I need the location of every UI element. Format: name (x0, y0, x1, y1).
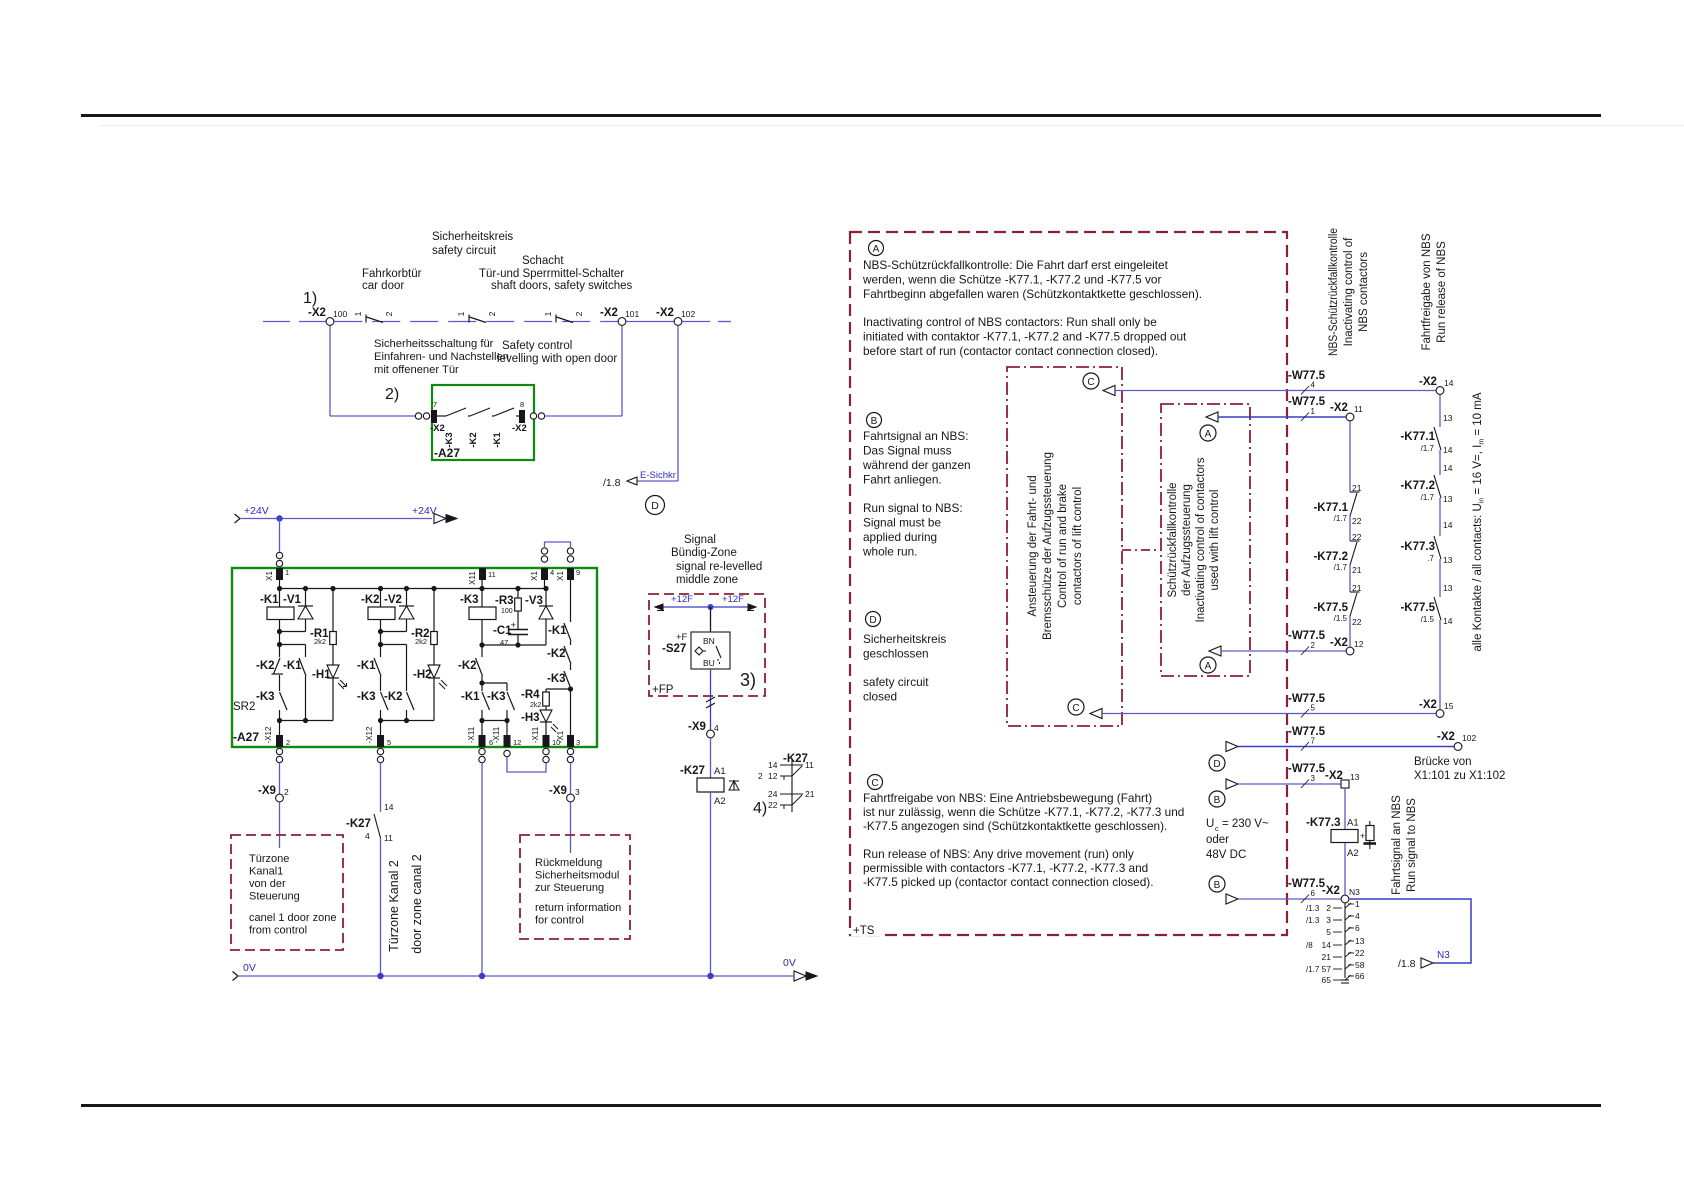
svg-text:permissible with contactors -K: permissible with contactors -K77.1, -K77… (863, 861, 1148, 875)
svg-text:from control: from control (249, 925, 307, 937)
svg-text:24: 24 (768, 789, 778, 799)
wire -W77.5 1 to X2:11 (1206, 412, 1218, 422)
svg-text:return information: return information (535, 902, 621, 914)
relay coil -K27 (710, 738, 712, 778)
svg-text:14: 14 (1443, 616, 1453, 626)
svg-text:-K2: -K2 (256, 660, 275, 672)
internal bus line (280, 588, 547, 590)
svg-text:-K2: -K2 (547, 648, 566, 660)
svg-text:-K77.5 picked up (contactor co: -K77.5 picked up (contactor contact conn… (863, 875, 1154, 889)
terminal circles left of A27 (415, 413, 421, 419)
svg-text:48V DC: 48V DC (1206, 849, 1246, 861)
svg-text:14: 14 (384, 802, 394, 812)
svg-text:4: 4 (714, 723, 719, 733)
wire X2:13 down to K77.3 coil (1344, 788, 1346, 829)
0V rail (233, 972, 239, 981)
svg-text:-K3: -K3 (460, 594, 479, 606)
left K77 chain from X2:11 to X2:12 (1349, 421, 1351, 492)
svg-text:-K2: -K2 (384, 691, 403, 703)
svg-text:/1.7: /1.7 (1334, 563, 1348, 572)
svg-text:-W77.5: -W77.5 (1288, 396, 1326, 408)
frame: top rule (81, 114, 1601, 117)
svg-text:applied during: applied during (863, 530, 937, 544)
junction dot on +24V (276, 515, 282, 521)
svg-text:Run signal to NBS: Run signal to NBS (1406, 798, 1418, 892)
wire with end dash (682, 321, 710, 323)
node line branch3 (482, 644, 546, 646)
pad -X2:7 (431, 410, 437, 423)
module box -A27 (green) (432, 385, 534, 460)
svg-text:X1: X1 (265, 571, 274, 581)
svg-text:13: 13 (1350, 772, 1360, 782)
pad X1:4 top (541, 568, 548, 580)
svg-text:/1.3: /1.3 (1306, 916, 1320, 925)
svg-text:-K77.3: -K77.3 (1400, 541, 1435, 553)
svg-text:13: 13 (1443, 494, 1453, 504)
svg-text:A1: A1 (1347, 818, 1359, 829)
svg-text:C: C (1087, 377, 1094, 388)
svg-text:12: 12 (1354, 639, 1364, 649)
bottom joints branch3 (482, 720, 507, 722)
svg-text:Fahrtfreigabe von NBS: Eine An: Fahrtfreigabe von NBS: Eine Antriebsbewe… (863, 791, 1152, 805)
svg-text:middle zone: middle zone (676, 574, 738, 586)
svg-text:D: D (869, 615, 876, 626)
svg-text:5: 5 (1326, 927, 1331, 937)
right K77 chain from X2:14 to X2:15 (1439, 395, 1441, 427)
svg-text:3: 3 (575, 787, 580, 797)
svg-text:X11: X11 (468, 571, 477, 585)
pad X11:6 (479, 735, 486, 747)
svg-text:-K3: -K3 (256, 691, 275, 703)
node B circle + text block (867, 413, 882, 428)
svg-text:-K77.3: -K77.3 (1306, 817, 1341, 829)
svg-text:ist nur zulässig, wenn die Sch: ist nur zulässig, wenn die Schütze -K77.… (863, 805, 1184, 819)
svg-text:11: 11 (488, 570, 496, 579)
wire -W77.5 7 to X2:102 (1226, 742, 1238, 752)
svg-text:65: 65 (1322, 975, 1332, 985)
svg-text:21: 21 (1322, 952, 1332, 962)
svg-text:Einfahren- und Nachstellen: Einfahren- und Nachstellen (374, 351, 509, 363)
svg-text:Tür-und Sperrmittel-Schalter: Tür-und Sperrmittel-Schalter (479, 268, 624, 280)
svg-text:14: 14 (1443, 520, 1453, 530)
svg-text:11: 11 (1354, 404, 1363, 414)
sensor box +FP (dashed) (649, 594, 765, 696)
svg-text:Signal must be: Signal must be (863, 516, 941, 530)
svg-text:-K1: -K1 (357, 660, 376, 672)
svg-text:-X2: -X2 (656, 307, 674, 319)
wire -W77.5 5 to X2:15 (1090, 709, 1102, 719)
svg-text:-K1: -K1 (283, 660, 302, 672)
svg-text:/1.7: /1.7 (1421, 444, 1435, 453)
svg-text:1: 1 (456, 311, 466, 316)
svg-text:15: 15 (1444, 701, 1454, 711)
contact -K2 in A27 (468, 415, 470, 417)
svg-text:11: 11 (384, 833, 393, 843)
svg-text:door zone canal 2: door zone canal 2 (410, 854, 424, 953)
svg-text:-V2: -V2 (384, 594, 402, 606)
svg-text:-X1: -X1 (556, 730, 565, 743)
svg-text:-K77.5: -K77.5 (1400, 602, 1435, 614)
+12F rail in FP box (655, 606, 756, 608)
pad X1:3 (567, 735, 574, 747)
svg-text:B: B (1214, 795, 1221, 806)
svg-text:-X2: -X2 (512, 423, 527, 434)
contact -K1 in A27 (492, 415, 494, 417)
annotation box Tuerzone Kanal1 (dashed) (231, 835, 343, 950)
svg-text:-X11: -X11 (531, 726, 540, 743)
svg-text:B: B (1214, 880, 1221, 891)
svg-text:+24V: +24V (412, 505, 437, 517)
svg-text:5: 5 (1311, 704, 1316, 713)
svg-text:C: C (1072, 703, 1079, 714)
pad -X2:8 (519, 410, 525, 423)
svg-text:Das Signal muss: Das Signal muss (863, 444, 952, 458)
svg-text:-K1: -K1 (260, 594, 279, 606)
svg-text:2: 2 (284, 787, 289, 797)
switch S3 (safety switch) pins 1-2 (555, 315, 557, 323)
svg-text:SR2: SR2 (233, 701, 255, 713)
svg-text:14: 14 (1322, 940, 1332, 950)
svg-text:8: 8 (520, 400, 524, 409)
svg-text:12: 12 (768, 771, 778, 781)
svg-text:4: 4 (550, 568, 554, 577)
svg-text:Control of run and brake: Control of run and brake (1057, 484, 1069, 608)
svg-text:2: 2 (1326, 903, 1331, 913)
svg-text:102: 102 (1462, 733, 1476, 743)
svg-text:-K77.2: -K77.2 (1313, 551, 1348, 563)
svg-text:-X2: -X2 (1330, 402, 1348, 414)
svg-text:21: 21 (1352, 565, 1362, 575)
svg-text:-R4: -R4 (521, 689, 540, 701)
svg-text:1: 1 (1355, 899, 1360, 909)
bottom joint branch1 (280, 720, 334, 722)
svg-text:-K77.1: -K77.1 (1313, 502, 1348, 514)
svg-text:2: 2 (758, 771, 763, 781)
pad X11:10 (543, 735, 550, 747)
svg-text:14: 14 (768, 760, 778, 770)
wire +24V down to X1:1 (279, 519, 281, 553)
svg-text:3: 3 (576, 738, 580, 747)
svg-text:/1.8: /1.8 (1398, 958, 1416, 970)
wire -W77.5 4 to X2:14 (1103, 386, 1115, 396)
svg-text:von der: von der (249, 878, 286, 890)
svg-text:-X2: -X2 (308, 307, 326, 319)
svg-text:13: 13 (1355, 936, 1365, 946)
svg-text:9: 9 (576, 568, 580, 577)
node B circle row3 (1209, 791, 1225, 807)
svg-text:NBS-Schützrückfallkontrolle: NBS-Schützrückfallkontrolle (1328, 228, 1340, 356)
switch S2 (shaft door) pins 1-2 (468, 315, 470, 323)
svg-text:14: 14 (1444, 378, 1454, 388)
svg-text:-K1: -K1 (492, 432, 503, 448)
svg-text:zur Steuerung: zur Steuerung (535, 882, 604, 894)
annotation box +TS (dashed dark red) (850, 232, 1287, 935)
junction dots on 0V (377, 973, 383, 979)
svg-text:2): 2) (385, 386, 399, 403)
svg-text:-K27: -K27 (680, 765, 705, 777)
svg-text:-W77.5: -W77.5 (1288, 370, 1326, 382)
svg-text:U: U (1206, 818, 1214, 830)
svg-text:2: 2 (286, 738, 290, 747)
svg-text:-K77.2: -K77.2 (1400, 480, 1435, 492)
svg-text:/1.8: /1.8 (603, 477, 621, 489)
svg-text:-W77.5: -W77.5 (1288, 726, 1326, 738)
svg-text:100: 100 (501, 608, 513, 615)
svg-text:for control: for control (535, 915, 584, 927)
svg-text:Ansteuerung der Fahrt- und: Ansteuerung der Fahrt- und (1027, 475, 1039, 616)
svg-text:6: 6 (1311, 889, 1316, 898)
pad X11:11 top (479, 568, 486, 580)
svg-text:0V: 0V (243, 962, 256, 974)
svg-text:N3: N3 (1349, 887, 1360, 897)
svg-text:before start of run (contactor: before start of run (contactor contact c… (863, 344, 1158, 358)
svg-text:-A27: -A27 (434, 446, 460, 460)
svg-text:werden, wenn die Schütze -K77.: werden, wenn die Schütze -K77.1, -K77.2 … (862, 273, 1161, 287)
svg-text:2: 2 (487, 311, 497, 316)
svg-text:C: C (871, 778, 878, 789)
R4/H3 branch (546, 688, 571, 690)
svg-text:Türzone Kanal 2: Türzone Kanal 2 (387, 860, 401, 952)
svg-text:13: 13 (1443, 413, 1453, 423)
svg-text:-S27: -S27 (662, 643, 686, 655)
node D circle + text block (866, 612, 881, 627)
frame: bottom rule (81, 1104, 1601, 1107)
terminal circles right of A27 (530, 413, 536, 419)
svg-text:A2: A2 (714, 796, 726, 807)
svg-text:47: 47 (500, 638, 508, 647)
svg-text:+24V: +24V (244, 505, 269, 517)
svg-text:contactors of lift control: contactors of lift control (1072, 487, 1084, 605)
suppressor diode at K27 (733, 780, 735, 790)
svg-text:Sicherheitskreis: Sicherheitskreis (863, 632, 946, 646)
svg-text:mit offenener Tür: mit offenener Tür (374, 364, 459, 376)
svg-text:6: 6 (1355, 923, 1360, 933)
svg-text:-X11: -X11 (492, 726, 501, 743)
svg-text:Kanal1: Kanal1 (249, 866, 283, 878)
switch S1 (car door) pins 1-2 (365, 315, 367, 323)
svg-text:3): 3) (740, 670, 756, 690)
svg-text:14: 14 (1443, 463, 1453, 473)
svg-text:NBS-Schützrückfallkontrolle: D: NBS-Schützrückfallkontrolle: Die Fahrt d… (863, 258, 1169, 272)
pad X1:1 top (276, 568, 283, 580)
module box SR2 (green) (232, 568, 597, 747)
wire X2:102 down to E-Sichkr (677, 326, 679, 481)
svg-text:-X2: -X2 (1330, 637, 1348, 649)
svg-text:-K77.1: -K77.1 (1400, 431, 1435, 443)
svg-text:1: 1 (543, 311, 553, 316)
svg-text:Sicherheitsmodul: Sicherheitsmodul (535, 870, 619, 882)
wire X11:6 down to 0V (481, 763, 483, 976)
node C circle row5 (1068, 699, 1084, 715)
svg-text:2: 2 (1311, 641, 1316, 650)
wire: dashed blue safety line (334, 321, 618, 323)
svg-text:-V1: -V1 (283, 594, 302, 606)
svg-text:100: 100 (333, 309, 347, 319)
svg-text:14: 14 (1443, 445, 1453, 455)
svg-text:3: 3 (1311, 774, 1316, 783)
svg-text:X1:101 zu X1:102: X1:101 zu X1:102 (1414, 770, 1505, 782)
svg-text:N3: N3 (1437, 950, 1450, 961)
svg-text:-H3: -H3 (521, 712, 540, 724)
svg-text:-X2: -X2 (1419, 699, 1437, 711)
svg-text:-X2: -X2 (1437, 731, 1455, 743)
svg-text:2k2: 2k2 (415, 637, 427, 646)
pad X1:9 top (567, 568, 574, 580)
svg-text:X1: X1 (530, 571, 539, 581)
svg-text:Fahrtfreigabe von NBS: Fahrtfreigabe von NBS (1421, 233, 1433, 350)
function box Ansteuerung (dash-dot) (1007, 367, 1122, 726)
svg-text:closed: closed (863, 690, 897, 704)
contact -K3 in A27 (437, 415, 446, 417)
svg-text:102: 102 (681, 309, 695, 319)
pad X12:5 (377, 735, 384, 747)
svg-text:Run release of NBS: Run release of NBS (1436, 241, 1448, 343)
svg-text:Fahrtbeginn abgefallen waren (: Fahrtbeginn abgefallen waren (Schützkont… (863, 287, 1202, 301)
wire (626, 321, 674, 323)
svg-text:-H2: -H2 (413, 669, 432, 681)
svg-text:12: 12 (513, 738, 521, 747)
svg-text:2: 2 (384, 311, 394, 316)
svg-text:Türzone: Türzone (249, 853, 289, 865)
svg-text:Inactivating control of NBS co: Inactivating control of NBS contactors: … (863, 315, 1157, 329)
svg-text:/1.5: /1.5 (1334, 614, 1348, 623)
node C circle + text block (868, 775, 883, 790)
svg-text:-K27: -K27 (346, 818, 371, 830)
pad X12:2 (276, 735, 283, 747)
circles above X1:4 X1:9 and blue bridge (541, 556, 547, 562)
svg-text:BU: BU (703, 658, 715, 668)
svg-text:-K77.5: -K77.5 (1313, 602, 1348, 614)
svg-text:whole run.: whole run. (862, 545, 917, 559)
svg-text:levelling with open door: levelling with open door (497, 353, 617, 365)
svg-text:-W77.5: -W77.5 (1288, 693, 1326, 705)
svg-text:/1.5: /1.5 (1421, 615, 1435, 624)
svg-text:Schacht: Schacht (522, 255, 564, 267)
sensor -S27 (710, 607, 712, 632)
wire -W77.5 3 to X2:13 (1226, 779, 1238, 789)
contact -K77.5 13/14 (1434, 597, 1441, 620)
svg-text:5: 5 (387, 738, 391, 747)
svg-text:/1.3: /1.3 (1306, 904, 1320, 913)
svg-text:-X2: -X2 (1325, 770, 1343, 782)
svg-text:3: 3 (1326, 915, 1331, 925)
wire X1:3 down to X9:3 (570, 763, 572, 794)
node C circle row4 (1083, 373, 1099, 389)
svg-text:-H1: -H1 (312, 669, 331, 681)
svg-text:2k2: 2k2 (314, 637, 326, 646)
svg-text:safety circuit: safety circuit (432, 245, 497, 257)
svg-text:0V: 0V (783, 957, 796, 969)
svg-text:-X9: -X9 (688, 721, 706, 733)
svg-text:-X2: -X2 (1322, 885, 1340, 897)
svg-text:2k2: 2k2 (530, 702, 541, 709)
svg-text:B: B (871, 416, 878, 427)
svg-text:Bremsschütze der Aufzugssteuer: Bremsschütze der Aufzugssteuerung (1042, 452, 1054, 640)
svg-text:66: 66 (1355, 971, 1365, 981)
svg-text:alle Kontakte / all contacts:: alle Kontakte / all contacts: Uin = 16 V… (1472, 392, 1486, 651)
pad X11:12 (504, 735, 511, 747)
svg-text:-X12: -X12 (365, 726, 374, 743)
svg-text:/8: /8 (1306, 941, 1313, 950)
svg-text:= 230 V~: = 230 V~ (1222, 818, 1269, 830)
svg-text:-X2: -X2 (1419, 376, 1437, 388)
circles below pads (276, 748, 282, 754)
node A circle row2 (1200, 657, 1216, 673)
svg-text:canel 1 door zone: canel 1 door zone (249, 912, 336, 924)
svg-text:21: 21 (805, 789, 815, 799)
svg-text:car door: car door (362, 280, 404, 292)
svg-text:-X9: -X9 (258, 785, 276, 797)
svg-text:22: 22 (1352, 617, 1362, 627)
svg-text:A: A (873, 244, 880, 255)
wire X2:101 down to A27 (621, 326, 623, 416)
junction dots branch3 (479, 586, 484, 591)
svg-text:4: 4 (365, 831, 370, 841)
svg-text:Run release of NBS: Any drive: Run release of NBS: Any drive movement (… (863, 847, 1134, 861)
junction dots branch1 (277, 586, 282, 591)
svg-text:-K2: -K2 (468, 432, 479, 447)
svg-text:Sicherheitskreis: Sicherheitskreis (432, 231, 513, 243)
svg-text:+12F: +12F (722, 594, 744, 605)
blue U bridge X11:12 to X11:10 (507, 757, 546, 772)
wire X12:5 down with -K27 contact to 0V (380, 763, 382, 812)
svg-text:A: A (1205, 661, 1212, 672)
svg-text:.7: .7 (1427, 554, 1434, 563)
+24V rail (235, 514, 241, 523)
wire: safety circuit main line left dashes (263, 321, 290, 323)
svg-text:1: 1 (285, 568, 289, 577)
svg-text:1: 1 (1311, 407, 1316, 416)
svg-text:+: + (1360, 831, 1365, 841)
svg-text:E-Sichkr: E-Sichkr (640, 470, 676, 481)
svg-text:BN: BN (703, 636, 715, 646)
svg-text:Fahrtsignal an NBS: Fahrtsignal an NBS (1391, 795, 1403, 895)
svg-text:-X11: -X11 (467, 726, 476, 743)
svg-text:101: 101 (625, 309, 639, 319)
svg-text:13: 13 (1443, 555, 1453, 565)
svg-text:22: 22 (1352, 516, 1362, 526)
node dots (277, 629, 282, 634)
wire coil to X2:N3 (1344, 843, 1346, 895)
svg-text:4: 4 (1311, 381, 1316, 390)
svg-text:Bündig-Zone: Bündig-Zone (671, 547, 737, 559)
svg-text:Run signal to NBS:: Run signal to NBS: (863, 501, 963, 515)
svg-text:Signal: Signal (684, 534, 716, 546)
svg-text:safety circuit: safety circuit (863, 675, 929, 689)
K77.3 contact reference list (1344, 903, 1346, 978)
svg-text:shaft doors, safety switches: shaft doors, safety switches (491, 280, 633, 292)
svg-text:-W77.5: -W77.5 (1288, 630, 1326, 642)
svg-text:geschlossen: geschlossen (863, 647, 929, 661)
svg-text:-K3: -K3 (357, 691, 376, 703)
wire K27 coil to 0V (710, 792, 712, 976)
svg-text:+TS: +TS (853, 925, 875, 937)
svg-text:+FP: +FP (652, 684, 674, 696)
contact -K77.3 14/13 (1434, 536, 1441, 559)
svg-text:c: c (1215, 824, 1219, 833)
svg-text:13: 13 (1443, 583, 1453, 593)
svg-text:Fahrt anliegen.: Fahrt anliegen. (863, 473, 942, 487)
svg-text:-K1: -K1 (548, 625, 567, 637)
svg-text:Schützrückfallkontrolle: Schützrückfallkontrolle (1167, 482, 1179, 597)
svg-text:initiated with contaktor -K77.: initiated with contaktor -K77.1, -K77.2 … (863, 330, 1187, 344)
svg-text:Brücke von: Brücke von (1414, 756, 1472, 768)
svg-text:Inactivating control of: Inactivating control of (1343, 237, 1355, 346)
svg-text:oder: oder (1206, 834, 1229, 846)
svg-text:7: 7 (1311, 737, 1316, 746)
sheet ref /1.8 E-Sichkr arrow (627, 477, 637, 485)
svg-text:Fahrkorbtür: Fahrkorbtür (362, 268, 422, 280)
